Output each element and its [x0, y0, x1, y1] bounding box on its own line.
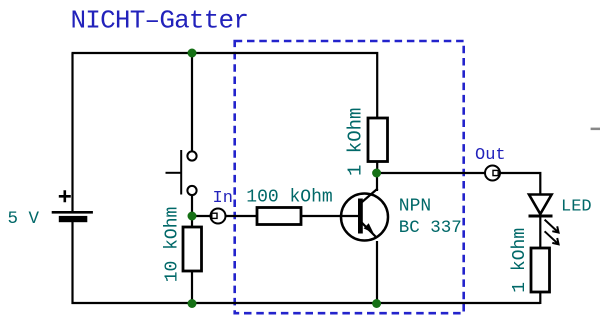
svg-text:1 kOhm: 1 kOhm — [345, 108, 367, 176]
junction dot top — [188, 49, 197, 58]
junction dot In — [188, 212, 197, 221]
transistor Q1 — [341, 189, 388, 241]
wire R 10k to bottom rail — [191, 270, 193, 303]
svg-text:BC 337: BC 337 — [399, 218, 462, 238]
wire R 1k right to bottom rail — [539, 292, 541, 304]
junction dot bottom right — [372, 299, 381, 308]
svg-text:10 kOhm: 10 kOhm — [163, 207, 183, 283]
dashed subcircuit box — [235, 41, 464, 313]
node Out — [485, 166, 500, 181]
wire switch drop — [191, 53, 193, 152]
switch S1 (push button) — [166, 150, 197, 195]
junction dot collector — [372, 169, 381, 178]
battery B1 5V — [52, 190, 93, 222]
svg-text:NPN: NPN — [399, 197, 431, 217]
wire junction to R 10k — [191, 216, 193, 228]
wire bottom rail — [72, 302, 541, 304]
resistor R1 100 kOhm — [257, 208, 301, 225]
svg-text:LED: LED — [561, 198, 592, 217]
wire In junction to In node — [192, 215, 211, 217]
svg-text:100 kOhm: 100 kOhm — [246, 187, 332, 207]
wire Out node to LED — [500, 173, 540, 195]
wire LED to R 1k right — [539, 216, 541, 248]
wire switch to node In — [191, 195, 193, 216]
junction dot bottom left — [188, 299, 197, 308]
wire collector node to Out node — [377, 172, 485, 174]
wire left rail upper — [71, 53, 73, 212]
resistor R4 1 kOhm right — [531, 248, 550, 292]
node In — [211, 209, 226, 224]
wire R 100k to base — [301, 215, 358, 217]
svg-text:In: In — [213, 189, 233, 208]
gray tick right edge — [591, 128, 600, 131]
wire left rail lower — [71, 221, 73, 304]
wire top rail — [72, 53, 378, 118]
wire R 1k to collector node — [376, 160, 378, 177]
diode LED1 — [529, 195, 559, 245]
wire emitter to bottom rail — [376, 241, 378, 303]
wire In node to R 100k — [226, 215, 258, 217]
wire collector node to transistor — [376, 173, 378, 191]
svg-text:5 V: 5 V — [8, 209, 40, 229]
svg-text:Out: Out — [475, 146, 506, 165]
svg-text:1 kOhm: 1 kOhm — [510, 228, 530, 293]
svg-text:NICHT–Gatter: NICHT–Gatter — [71, 6, 249, 36]
resistor R3 1 kOhm — [368, 118, 388, 162]
resistor R2 10 kOhm — [183, 227, 202, 271]
